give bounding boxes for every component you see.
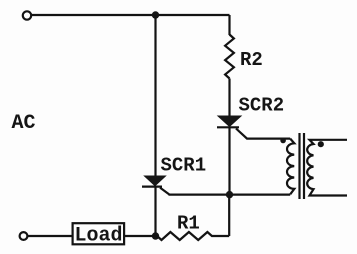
wire load to junction bbox=[125, 235, 157, 237]
svg-text:SCR2: SCR2 bbox=[239, 95, 285, 117]
transformer primary winding T1 bbox=[287, 139, 294, 195]
terminal AC top bbox=[23, 11, 31, 19]
terminal AC bottom bbox=[20, 232, 28, 240]
thyristor SCR2 bbox=[217, 116, 241, 127]
wire SCR1 gate bbox=[160, 188, 170, 195]
wire junction B down to R1 bbox=[228, 195, 230, 236]
wire R2 to SCR2 anode bbox=[228, 79, 230, 117]
node junction B bbox=[226, 191, 233, 198]
resistor R2 bbox=[225, 35, 234, 79]
svg-text:R1: R1 bbox=[177, 212, 200, 234]
node top junction bbox=[152, 11, 159, 18]
load box bbox=[73, 223, 125, 244]
transformer secondary winding bbox=[307, 140, 347, 196]
svg-text:SCR1: SCR1 bbox=[161, 154, 207, 176]
wire SCR2 cathode down bbox=[228, 127, 230, 194]
wire SCR2 gate to transformer primary bbox=[236, 129, 290, 139]
polarity dot primary bbox=[280, 138, 286, 144]
resistor R1 bbox=[157, 232, 229, 240]
svg-text:AC: AC bbox=[12, 112, 36, 135]
wire gate line / primary bottom lead bbox=[169, 194, 291, 196]
thyristor SCR1 bbox=[142, 176, 166, 187]
wire SCR1 anode branch bbox=[154, 15, 156, 176]
svg-text:R2: R2 bbox=[240, 49, 263, 71]
polarity dot secondary bbox=[318, 141, 324, 147]
wire top rail bbox=[32, 14, 230, 16]
wire SCR1 cathode down bbox=[154, 187, 156, 236]
svg-text:Load: Load bbox=[75, 225, 123, 248]
node bottom junction bbox=[152, 232, 159, 239]
wire bottom to load bbox=[28, 235, 72, 237]
transformer core bbox=[300, 133, 305, 199]
wire R2 branch top bbox=[228, 15, 230, 35]
